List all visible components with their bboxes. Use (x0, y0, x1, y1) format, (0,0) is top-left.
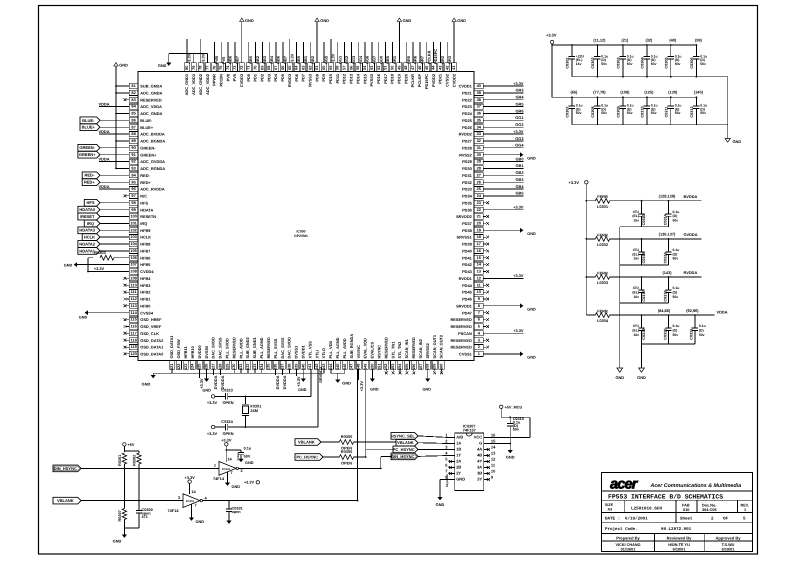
svg-text:+3.3V: +3.3V (207, 400, 218, 405)
svg-text:ADC_RVDDA: ADC_RVDDA (140, 187, 165, 192)
svg-text:GB7: GB7 (283, 56, 288, 64)
svg-text:PD8: PD8 (314, 73, 319, 81)
svg-text:140: 140 (300, 364, 305, 371)
svg-text:GG5: GG5 (324, 55, 329, 64)
svg-text:PD17: PD17 (383, 74, 388, 84)
svg-text:C0305: C0305 (664, 57, 668, 68)
node VBLANK tag mid (295, 439, 321, 446)
svg-text:CVSS4: CVSS4 (140, 310, 154, 315)
svg-text:GB4: GB4 (516, 184, 525, 189)
svg-text:RVDD3: RVDD3 (287, 73, 292, 87)
svg-text:PD7: PD7 (301, 74, 306, 82)
svg-text:4A: 4A (477, 447, 482, 452)
svg-text:113: 113 (130, 303, 137, 308)
capacitor C0312 (695, 97, 697, 106)
wire XTLO net (245, 426, 247, 428)
capacitor C0310 (646, 97, 648, 106)
svg-text:GND: GND (342, 381, 351, 386)
svg-text:(125): (125) (644, 90, 654, 95)
svg-text:111: 111 (131, 289, 138, 294)
resistor R0303 on pin 106 (114, 257, 129, 259)
svg-text:0.1u: 0.1u (673, 286, 680, 290)
svg-text:(65): (65) (570, 90, 578, 95)
wire VBLANK riser (357, 442, 359, 501)
svg-text:L2501010.SCH: L2501010.SCH (631, 507, 662, 512)
svg-text:DVDDA: DVDDA (275, 375, 280, 389)
svg-text:PD38: PD38 (462, 228, 473, 233)
svg-text:PD25: PD25 (462, 118, 473, 123)
svg-text:PD11: PD11 (335, 73, 340, 83)
svg-text:118: 118 (130, 337, 137, 342)
svg-text:ADC_GND2: ADC_GND2 (198, 73, 203, 95)
wire to ground (727, 77, 729, 139)
svg-text:VDDA: VDDA (98, 129, 109, 134)
svg-text:GB4: GB4 (269, 55, 274, 64)
svg-text:PC_HSYNC: PC_HSYNC (296, 454, 318, 459)
svg-text:VDDA: VDDA (98, 157, 109, 162)
svg-text:RESERVED: RESERVED (140, 97, 162, 102)
svg-text:GND: GND (436, 502, 445, 507)
wire/net at top pin 44 (433, 42, 435, 63)
svg-text:DAC_SVDD: DAC_SVDD (287, 337, 292, 359)
svg-text:16v: 16v (633, 333, 639, 337)
capacitor C0308 (596, 97, 598, 106)
wire/net at top pin 52 (378, 42, 380, 63)
svg-text:PD13: PD13 (349, 73, 354, 84)
svg-text:HFB2: HFB2 (140, 290, 151, 295)
IC0307 pin 5 (449, 461, 455, 463)
svg-text:PD22: PD22 (462, 97, 473, 102)
svg-text:47U: 47U (633, 248, 640, 252)
wire ground join GVDDA (620, 264, 669, 266)
svg-text:SRVDD1: SRVDD1 (456, 303, 473, 308)
svg-text:150: 150 (369, 364, 374, 371)
svg-text:RVSS3: RVSS3 (308, 73, 313, 87)
svg-text:HFB6: HFB6 (140, 255, 151, 260)
svg-text:50v: 50v (627, 111, 633, 115)
svg-text:C0313: C0313 (642, 214, 646, 225)
IC0307 pin 1 (449, 437, 455, 439)
svg-text:16v: 16v (576, 62, 582, 66)
svg-text:GND: GND (733, 139, 742, 144)
svg-text:HFB3: HFB3 (140, 283, 151, 288)
svg-text:R0301: R0301 (118, 455, 122, 466)
svg-text:57: 57 (342, 66, 347, 70)
svg-text:(84,86): (84,86) (658, 308, 671, 313)
wire/net at right pin 33 (483, 133, 523, 135)
ground arrow pin 150 (371, 369, 373, 378)
svg-text:OPEN: OPEN (222, 400, 233, 405)
svg-text:PCLKR: PCLKR (410, 74, 415, 88)
ground wire pin 114 (88, 312, 129, 314)
svg-text:(32): (32) (645, 38, 653, 43)
svg-text:(11,12): (11,12) (593, 38, 606, 43)
svg-text:HDATA3: HDATA3 (79, 228, 95, 233)
svg-text:GND: GND (637, 375, 646, 380)
wire/net at top pin 51 (385, 42, 387, 63)
svg-text:+3.3V: +3.3V (513, 81, 524, 86)
svg-text:1A: 1A (456, 441, 461, 446)
svg-text:RVSS2: RVSS2 (459, 152, 473, 157)
svg-text:13: 13 (491, 451, 496, 456)
wire/net at right pin 22 (483, 209, 523, 211)
svg-text:ADC_GNDA: ADC_GNDA (140, 111, 162, 116)
wire/net at right pin 30 (483, 154, 520, 156)
svg-text:GB6: GB6 (276, 55, 281, 64)
wire/net at top pin 69 (261, 42, 263, 63)
svg-text:PD24: PD24 (462, 111, 473, 116)
svg-text:PD10: PD10 (328, 74, 333, 84)
svg-text:159: 159 (432, 363, 437, 370)
multiplexer IC0307 74F157 body (455, 433, 484, 491)
svg-text:CVDD1: CVDD1 (459, 84, 473, 89)
svg-text:ADC_VDD2: ADC_VDD2 (205, 73, 210, 95)
svg-text:0.1u: 0.1u (673, 324, 680, 328)
svg-text:144: 144 (328, 363, 333, 370)
svg-text:(EL): (EL) (632, 214, 639, 218)
svg-text:DATE :: DATE : (605, 517, 620, 522)
svg-text:REV.: REV. (741, 504, 750, 508)
wire/net at top pin 46 (419, 42, 421, 63)
svg-text:C0311: C0311 (664, 107, 668, 118)
svg-text:PD14: PD14 (355, 73, 360, 84)
resistor R0305 OPEN (323, 456, 339, 458)
+3.3V label pin 125 (199, 369, 201, 378)
IC0307 pin 9 (484, 479, 490, 481)
svg-text:PD15PC: PD15PC (433, 49, 438, 64)
svg-text:010: 010 (683, 508, 689, 512)
svg-text:C0301: C0301 (566, 57, 570, 68)
svg-text:A3: A3 (608, 508, 613, 512)
title block (602, 473, 753, 552)
svg-text:74F14: 74F14 (213, 476, 225, 481)
wire ground join BVDDA (620, 226, 669, 228)
svg-text:+3.3V: +3.3V (221, 437, 232, 442)
svg-text:PD3: PD3 (266, 73, 271, 81)
node PC_HSYNC tag mid (295, 454, 323, 461)
ground arrow pin 126 (206, 369, 208, 378)
svg-text:GB0: GB0 (516, 156, 524, 161)
wire XTLI net (245, 395, 311, 397)
svg-text:135: 135 (266, 363, 271, 370)
svg-text:PCLKP: PCLKP (417, 74, 422, 88)
svg-text:74F157: 74F157 (463, 428, 476, 433)
svg-text:+3.3V: +3.3V (200, 53, 205, 64)
+3.3V wire pin 108 (88, 271, 129, 273)
svg-text:GND: GND (232, 485, 241, 489)
svg-text:GND: GND (527, 308, 536, 312)
svg-text:PD43: PD43 (462, 269, 473, 274)
svg-text:2B: 2B (456, 465, 461, 470)
capacitor C0311 (670, 97, 672, 106)
IC0307 pin 14 (484, 449, 490, 451)
svg-text:SCAN_OUT2: SCAN_OUT2 (439, 334, 444, 358)
svg-text:EVAL/CS: EVAL/CS (370, 342, 375, 359)
resistor R0301 OPEN (122, 453, 126, 464)
svg-text:HSYNC: HSYNC (377, 345, 382, 359)
svg-text:L0302: L0302 (597, 242, 609, 247)
ground rail B arrow (639, 368, 645, 372)
svg-text:XTLI: XTLI (314, 350, 319, 358)
svg-text:BLUE+: BLUE+ (82, 125, 96, 130)
capacitor C0300 open (138, 501, 140, 511)
ground arrow pin 140 (302, 369, 304, 378)
svg-text:50v: 50v (699, 333, 705, 337)
capacitor C0316 0.1u (668, 239, 670, 252)
svg-text:(D): (D) (673, 214, 678, 218)
svg-text:(EL): (EL) (632, 329, 639, 333)
svg-text:+5V: +5V (128, 443, 135, 447)
svg-text:(136,137): (136,137) (659, 232, 676, 237)
left side external wiring (64, 63, 129, 356)
svg-text:1: 1 (744, 508, 746, 512)
left connector tags (80, 117, 100, 124)
svg-text:GREEN+: GREEN+ (79, 152, 96, 157)
svg-text:16v: 16v (633, 257, 639, 261)
svg-text:OSD_FSW: OSD_FSW (176, 339, 181, 359)
svg-text:GND: GND (196, 520, 205, 524)
svg-text:2Y: 2Y (456, 471, 461, 476)
svg-text:PD44: PD44 (462, 283, 473, 288)
node VBLANK tag (396, 439, 418, 446)
svg-text:OSD_VREF: OSD_VREF (140, 324, 162, 329)
capacitor C0322 0.1u 50V (240, 450, 242, 452)
svg-text:GR6: GR6 (413, 55, 418, 64)
capacitor C0306 (695, 45, 697, 57)
svg-text:OSD_HREF: OSD_HREF (140, 317, 162, 322)
svg-text:133: 133 (252, 363, 257, 370)
node VDDA wires on pins 84/88/92/96 (99, 106, 129, 108)
capacitor C0317 47U electrolytic (641, 277, 643, 290)
svg-text:PD1: PD1 (253, 73, 258, 81)
svg-text:104: 104 (130, 241, 137, 246)
svg-text:47U: 47U (633, 286, 640, 290)
wire/net at top pin 76 (213, 42, 215, 63)
svg-text:PD40: PD40 (462, 249, 472, 254)
svg-text:GR3: GR3 (447, 55, 452, 64)
svg-text:VDDA: VDDA (98, 102, 109, 107)
resistor R0307 (123, 468, 125, 508)
svg-text:145: 145 (335, 363, 340, 370)
svg-text:PD12: PD12 (342, 73, 347, 84)
svg-text:Prepared By: Prepared By (616, 535, 640, 540)
wire/net at top pin 48 (405, 42, 407, 63)
svg-text:PD42: PD42 (462, 262, 473, 267)
wire/net at right pin 6 (483, 319, 486, 321)
svg-text:PVSS3: PVSS3 (369, 73, 374, 86)
wire/net at top pin 58 (337, 42, 339, 63)
svg-text:RESERVED: RESERVED (450, 338, 472, 343)
wire/net at right pin 26 (483, 181, 523, 183)
svg-text:PLL_VDD: PLL_VDD (328, 341, 333, 359)
svg-text:GR1: GR1 (392, 55, 397, 64)
svg-text:PD6: PD6 (294, 73, 299, 81)
ground bracket pins 144/146 (330, 369, 332, 373)
svg-text:acer: acer (610, 477, 639, 493)
wire/net at right pin 9 (483, 298, 486, 300)
svg-text:R0303: R0303 (94, 250, 106, 255)
svg-text:121: 121 (169, 363, 174, 370)
wire/net at top pin 67 (275, 42, 277, 63)
svg-text:CVSS2: CVSS2 (445, 73, 450, 87)
wire/net at top pin 43 (439, 42, 441, 63)
svg-text:C0324: C0324 (221, 419, 233, 424)
svg-text:OSD_DATA1: OSD_DATA1 (140, 345, 164, 350)
svg-text:PD36: PD36 (462, 207, 473, 212)
inductor L0303 ferrite bead branch RVDDA (586, 276, 595, 278)
IC000 right pins 40-1 stubs, pin-number boxes, pin names (450, 83, 483, 356)
svg-text:GREEN-: GREEN- (79, 145, 95, 150)
svg-text:17: 17 (477, 241, 481, 246)
+5V terminal (123, 443, 126, 446)
node DVDDA labels pins 136,137 (275, 369, 277, 375)
svg-text:87: 87 (131, 124, 135, 129)
svg-text:GND: GND (298, 388, 307, 392)
svg-text:/RESET: /RESET (80, 214, 95, 219)
svg-text:148: 148 (356, 363, 361, 370)
svg-text:50v: 50v (700, 62, 706, 66)
svg-text:PV8: PV8 (225, 73, 230, 81)
svg-text:PD15: PD15 (362, 73, 367, 84)
svg-text:PV5: PV5 (232, 73, 237, 81)
svg-text:SCAN_OUT1: SCAN_OUT1 (432, 334, 437, 358)
svg-text:N/C: N/C (140, 194, 147, 199)
svg-text:GG3: GG3 (515, 136, 524, 141)
svg-text:GB1: GB1 (516, 163, 525, 168)
svg-text:(143): (143) (662, 270, 672, 275)
svg-text:20: 20 (477, 221, 481, 226)
svg-text:+3.3V: +3.3V (513, 205, 524, 210)
node DIN_HSYNC tag (391, 453, 418, 460)
node DIN_HSYNC input tag (53, 465, 81, 472)
svg-text:GG7: GG7 (372, 56, 377, 64)
svg-text:IC000: IC000 (296, 230, 305, 234)
svg-text:PD23: PD23 (462, 104, 473, 109)
svg-text:67: 67 (273, 66, 278, 70)
svg-text:60: 60 (321, 66, 326, 70)
top side external wiring (158, 18, 466, 68)
wire/net at right pin 11 (483, 284, 486, 286)
svg-text:C0316: C0316 (663, 252, 667, 263)
+3.3V label pin 149 (358, 369, 360, 380)
wires tag stack to IC0307 inputs (418, 436, 449, 438)
wire/net at right pin 27 (483, 174, 523, 176)
wire row2 ground bus (572, 124, 728, 126)
svg-text:50v: 50v (673, 295, 679, 299)
wire/net at top pin 65 (289, 39, 291, 63)
wire +3.3V row1 bus (552, 44, 696, 46)
svg-text:C0307: C0307 (566, 106, 570, 117)
svg-text:XTL_VSS: XTL_VSS (307, 341, 312, 359)
svg-text:VBLANK: VBLANK (298, 439, 315, 444)
capacitor C0320 0.1u (668, 315, 670, 328)
svg-text:PPWR: PPWR (212, 74, 217, 86)
svg-text:L0301: L0301 (597, 204, 609, 209)
svg-text:PVB: PVB (214, 56, 219, 64)
svg-text:50: 50 (390, 66, 395, 70)
svg-text:112: 112 (130, 296, 137, 301)
inductor L0301 ferrite bead branch BVDDA (586, 200, 595, 202)
svg-text:VBLANK: VBLANK (397, 440, 414, 445)
svg-text:47U: 47U (633, 324, 640, 328)
svg-text:L0304: L0304 (597, 318, 609, 323)
wire inverter B output (203, 500, 358, 502)
svg-text:PCLKR: PCLKR (426, 50, 431, 64)
svg-text:RED+: RED+ (140, 180, 151, 185)
wire/net at right pin 40 (483, 85, 523, 87)
wire/net at right pin 5 (483, 326, 486, 328)
svg-text:A/B: A/B (456, 435, 463, 440)
wire/net at right pin 3 (483, 339, 486, 341)
svg-text:+3.3V: +3.3V (513, 129, 524, 134)
svg-text:127: 127 (211, 364, 216, 371)
svg-text:GND: GND (457, 18, 466, 23)
wire/net at top pin 41 (453, 22, 455, 63)
svg-text:BVDDA: BVDDA (684, 194, 698, 199)
svg-text:BLUE-: BLUE- (82, 118, 95, 123)
svg-text:GB7: GB7 (235, 56, 240, 64)
svg-text:7: 7 (195, 503, 197, 508)
decoupling capacitor bank C0301-C0312 (546, 32, 741, 144)
svg-text:PD35: PD35 (462, 200, 473, 205)
svg-text:SRVSS2: SRVSS2 (425, 342, 430, 358)
svg-text:+3.3V: +3.3V (94, 266, 105, 271)
+5V_MCU terminal (500, 405, 503, 408)
capacitor C0321 0.1u (694, 315, 696, 328)
no-connect marks IC0307 unused pins (449, 460, 452, 463)
svg-text:RESERVED: RESERVED (383, 337, 388, 359)
svg-text:471: 471 (142, 515, 148, 519)
svg-text:47U: 47U (633, 210, 640, 214)
svg-text:(128,129): (128,129) (659, 194, 676, 199)
svg-text:HFB1: HFB1 (140, 297, 151, 302)
svg-text:PD32: PD32 (462, 180, 473, 185)
svg-text:+3.3V: +3.3V (513, 273, 524, 278)
wire/net at top pin 54 (364, 42, 366, 63)
svg-text:EVAL_VDD: EVAL_VDD (363, 338, 368, 359)
svg-text:Approved By: Approved By (716, 535, 742, 540)
wire/net at right pin 23 (483, 202, 486, 204)
node PC_HSYNC tag (393, 446, 418, 453)
svg-text:HFB5: HFB5 (140, 262, 151, 267)
IC0307 pin 11 (484, 467, 490, 469)
svg-text:C0302: C0302 (591, 57, 595, 68)
svg-text:106: 106 (130, 255, 137, 260)
svg-text:DVDDA: DVDDA (213, 375, 218, 389)
wire inverter A output (239, 467, 381, 469)
IC000 bottom pins 121-160 stubs, pin-number boxes, pin names (169, 334, 444, 370)
svg-text:C0318: C0318 (663, 290, 667, 301)
svg-text:105: 105 (130, 248, 137, 253)
svg-text:3B: 3B (477, 471, 482, 476)
svg-text:STL_TN2: STL_TN2 (397, 341, 402, 359)
svg-text:146: 146 (342, 363, 347, 370)
wire/net at top pin 64 (296, 42, 298, 63)
svg-text:3A: 3A (477, 465, 482, 470)
wire/net at right pin 12 (483, 277, 523, 279)
svg-text:HDATA2: HDATA2 (79, 241, 95, 246)
svg-text:GG2: GG2 (515, 122, 524, 127)
wire/net at top pin 59 (330, 39, 332, 63)
svg-text:109: 109 (130, 276, 137, 281)
svg-text:(59): (59) (695, 38, 703, 43)
svg-text:RESERVED: RESERVED (266, 337, 271, 359)
svg-text:Reviewed By: Reviewed By (667, 535, 692, 540)
svg-text:ADC_BVDDA: ADC_BVDDA (140, 132, 165, 137)
svg-text:(92,96): (92,96) (686, 308, 699, 313)
svg-text:122: 122 (176, 363, 181, 370)
svg-text:PD33: PD33 (462, 187, 473, 192)
